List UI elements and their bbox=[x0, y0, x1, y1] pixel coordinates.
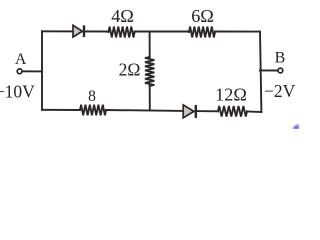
diode D2 bottom branch bbox=[183, 105, 196, 118]
svg-text:2Ω: 2Ω bbox=[119, 59, 141, 79]
scan artifact blue speck bottom-right bbox=[292, 124, 298, 129]
svg-text:−10V: −10V bbox=[0, 82, 35, 102]
wire bottom between 8ohm resistor and diode D2 bbox=[106, 109, 183, 112]
wire top from left corner to 4ohm resistor bbox=[42, 30, 109, 32]
svg-text:6Ω: 6Ω bbox=[191, 6, 214, 26]
resistor 6ohm bbox=[189, 27, 215, 38]
resistor 12ohm bbox=[218, 106, 247, 117]
wire top between 4ohm and 6ohm resistors bbox=[135, 31, 189, 33]
svg-text:B: B bbox=[275, 50, 286, 67]
wire bottom from left corner to 8ohm resistor bbox=[42, 109, 80, 111]
resistor 4ohm bbox=[109, 27, 135, 38]
wire middle vertical above 2ohm resistor bbox=[149, 32, 151, 58]
wire terminal B stub bbox=[260, 69, 278, 71]
resistor 2ohm bbox=[145, 57, 154, 86]
wire right vertical bbox=[260, 32, 261, 112]
svg-text:12Ω: 12Ω bbox=[215, 84, 247, 104]
resistor 8ohm bbox=[80, 105, 106, 116]
wire middle vertical below 2ohm resistor bbox=[149, 86, 151, 110]
wire terminal A stub bbox=[22, 70, 42, 72]
wire bottom between diode D2 and 12ohm resistor bbox=[196, 110, 218, 112]
wire bottom from 12ohm resistor to right corner bbox=[247, 111, 261, 114]
terminal A circle bbox=[17, 69, 22, 74]
wire left vertical bbox=[41, 31, 43, 110]
svg-text:−2V: −2V bbox=[264, 81, 296, 101]
svg-text:4Ω: 4Ω bbox=[111, 6, 134, 26]
svg-text:8: 8 bbox=[88, 88, 96, 105]
svg-text:A: A bbox=[15, 51, 27, 68]
diode D1 top branch bbox=[73, 25, 84, 37]
terminal B circle bbox=[278, 68, 283, 73]
wire top from 6ohm resistor to right corner bbox=[215, 31, 260, 33]
